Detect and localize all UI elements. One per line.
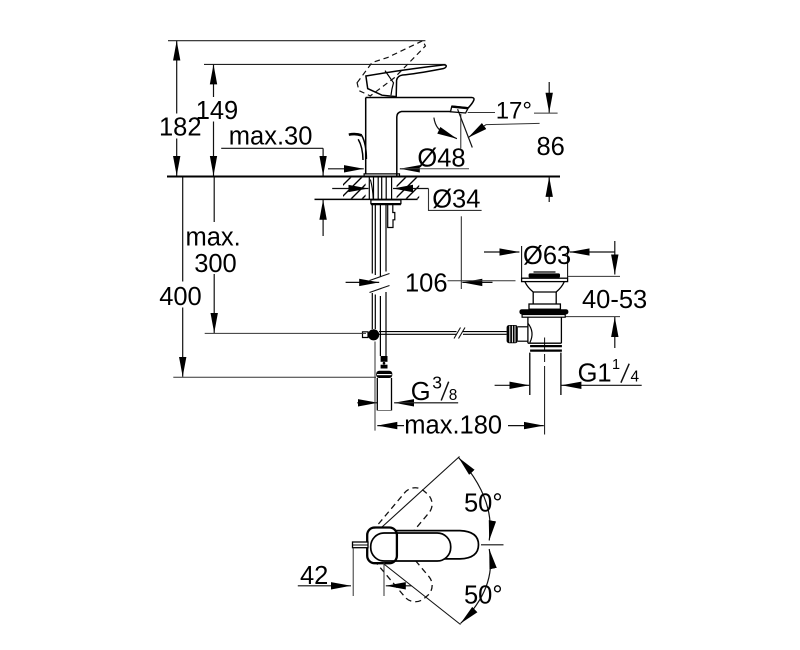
svg-text:max.30: max.30	[229, 122, 313, 150]
dimension max.180	[375, 342, 544, 440]
drain flange	[522, 278, 568, 281]
handle top view cartridge	[367, 528, 397, 564]
dimension 86	[534, 82, 565, 202]
svg-text:300: 300	[194, 250, 237, 278]
pop-up rod pipe lower	[372, 292, 386, 356]
svg-text:Ø63: Ø63	[523, 242, 571, 270]
lever handle raised dashed	[357, 41, 425, 96]
svg-text:Ø34: Ø34	[432, 185, 480, 213]
horizontal pop-up linkage rod	[379, 332, 507, 335]
svg-text:8: 8	[449, 387, 458, 404]
drain upper body	[533, 292, 556, 304]
rod end block	[363, 332, 369, 338]
pop-up rod pipe upper	[372, 205, 386, 277]
svg-text:86: 86	[537, 133, 565, 161]
dimension 106	[346, 216, 493, 297]
dimension diameter 34	[332, 185, 481, 213]
drain neck taper	[525, 282, 564, 292]
lever handle solid	[366, 65, 446, 97]
supply fitting collar	[376, 371, 392, 378]
svg-text:Ø48: Ø48	[417, 145, 465, 173]
water stream vertical reference	[460, 114, 462, 149]
knob housing arc	[528, 323, 532, 342]
svg-text:50°: 50°	[464, 490, 503, 518]
faucet body outline	[366, 98, 451, 177]
deck hatching left	[343, 178, 366, 199]
handle set screw pin	[353, 542, 369, 548]
reference line 182 top	[168, 40, 425, 42]
reference line 149 top	[204, 63, 446, 65]
dimension 149	[196, 64, 239, 175]
svg-text:17°: 17°	[496, 98, 532, 125]
shank rod curve	[370, 180, 373, 200]
dimension 400	[159, 178, 376, 378]
dimension G 3/8	[357, 373, 458, 406]
label 17 degrees	[468, 98, 540, 138]
drain seal ring	[519, 309, 568, 314]
svg-text:max.: max.	[186, 223, 241, 251]
deck bottom line	[315, 198, 418, 200]
handle top view outer lever	[396, 531, 479, 559]
svg-text:106: 106	[405, 269, 448, 297]
dimension G1 1/4	[495, 357, 642, 388]
mounting washer	[371, 200, 401, 204]
handle top view dashed raised	[363, 482, 437, 562]
basin level line	[448, 280, 516, 282]
drain plug cap	[529, 272, 560, 278]
swing arc upper	[459, 458, 491, 541]
swing angle line upper	[382, 457, 460, 528]
pipe break marks	[370, 274, 390, 293]
dimension diameter 63	[484, 242, 615, 278]
svg-text:3: 3	[432, 373, 442, 393]
dimension diameter 48	[328, 145, 469, 173]
spout swivel arc arrow	[434, 118, 457, 139]
supply fitting threaded end	[381, 356, 388, 362]
drain locknut bands	[530, 346, 562, 351]
swing arc lower	[461, 549, 491, 624]
svg-text:1: 1	[612, 357, 620, 373]
deck top line	[167, 176, 560, 178]
handle top view grip	[371, 533, 451, 561]
dimension 40-53	[565, 241, 647, 348]
svg-text:400: 400	[159, 283, 202, 311]
handle top view dashed lowered	[363, 527, 437, 607]
svg-text:4: 4	[631, 369, 640, 386]
svg-text:40-53: 40-53	[582, 286, 647, 314]
pop-up rod guide steps	[388, 205, 395, 228]
svg-text:50°: 50°	[464, 582, 503, 610]
water stream 17 deg line	[458, 109, 473, 147]
drain under flange	[522, 315, 565, 318]
faucet base plate	[364, 174, 399, 177]
dimension 182	[159, 41, 202, 176]
dimension max.300	[186, 178, 367, 334]
svg-text:G1: G1	[578, 360, 612, 388]
supply tube	[377, 378, 391, 411]
spout aerator	[451, 106, 469, 113]
deck hatching right	[397, 178, 420, 199]
svg-text:G: G	[411, 378, 431, 406]
handle centerline stub	[481, 544, 504, 546]
drain step collar	[529, 304, 560, 309]
dimension max.30	[221, 122, 323, 236]
ball joint	[368, 329, 379, 340]
drain tailpipe	[530, 353, 561, 395]
drain side knob	[507, 325, 528, 343]
lever inner edge	[385, 71, 394, 96]
svg-text:149: 149	[196, 97, 239, 125]
svg-text:42: 42	[300, 562, 328, 590]
dimension 42	[298, 548, 412, 596]
svg-text:max.180: max.180	[404, 412, 502, 440]
rod break marks	[454, 328, 465, 339]
swing angle line lower	[382, 563, 461, 625]
pop-up rod knob	[349, 134, 362, 135]
drain centerline	[544, 338, 546, 363]
faucet shank below deck	[369, 178, 391, 200]
faucet top edge and spout tip	[366, 98, 474, 108]
drain lower body	[528, 317, 562, 343]
cartridge interior mask	[368, 529, 396, 563]
